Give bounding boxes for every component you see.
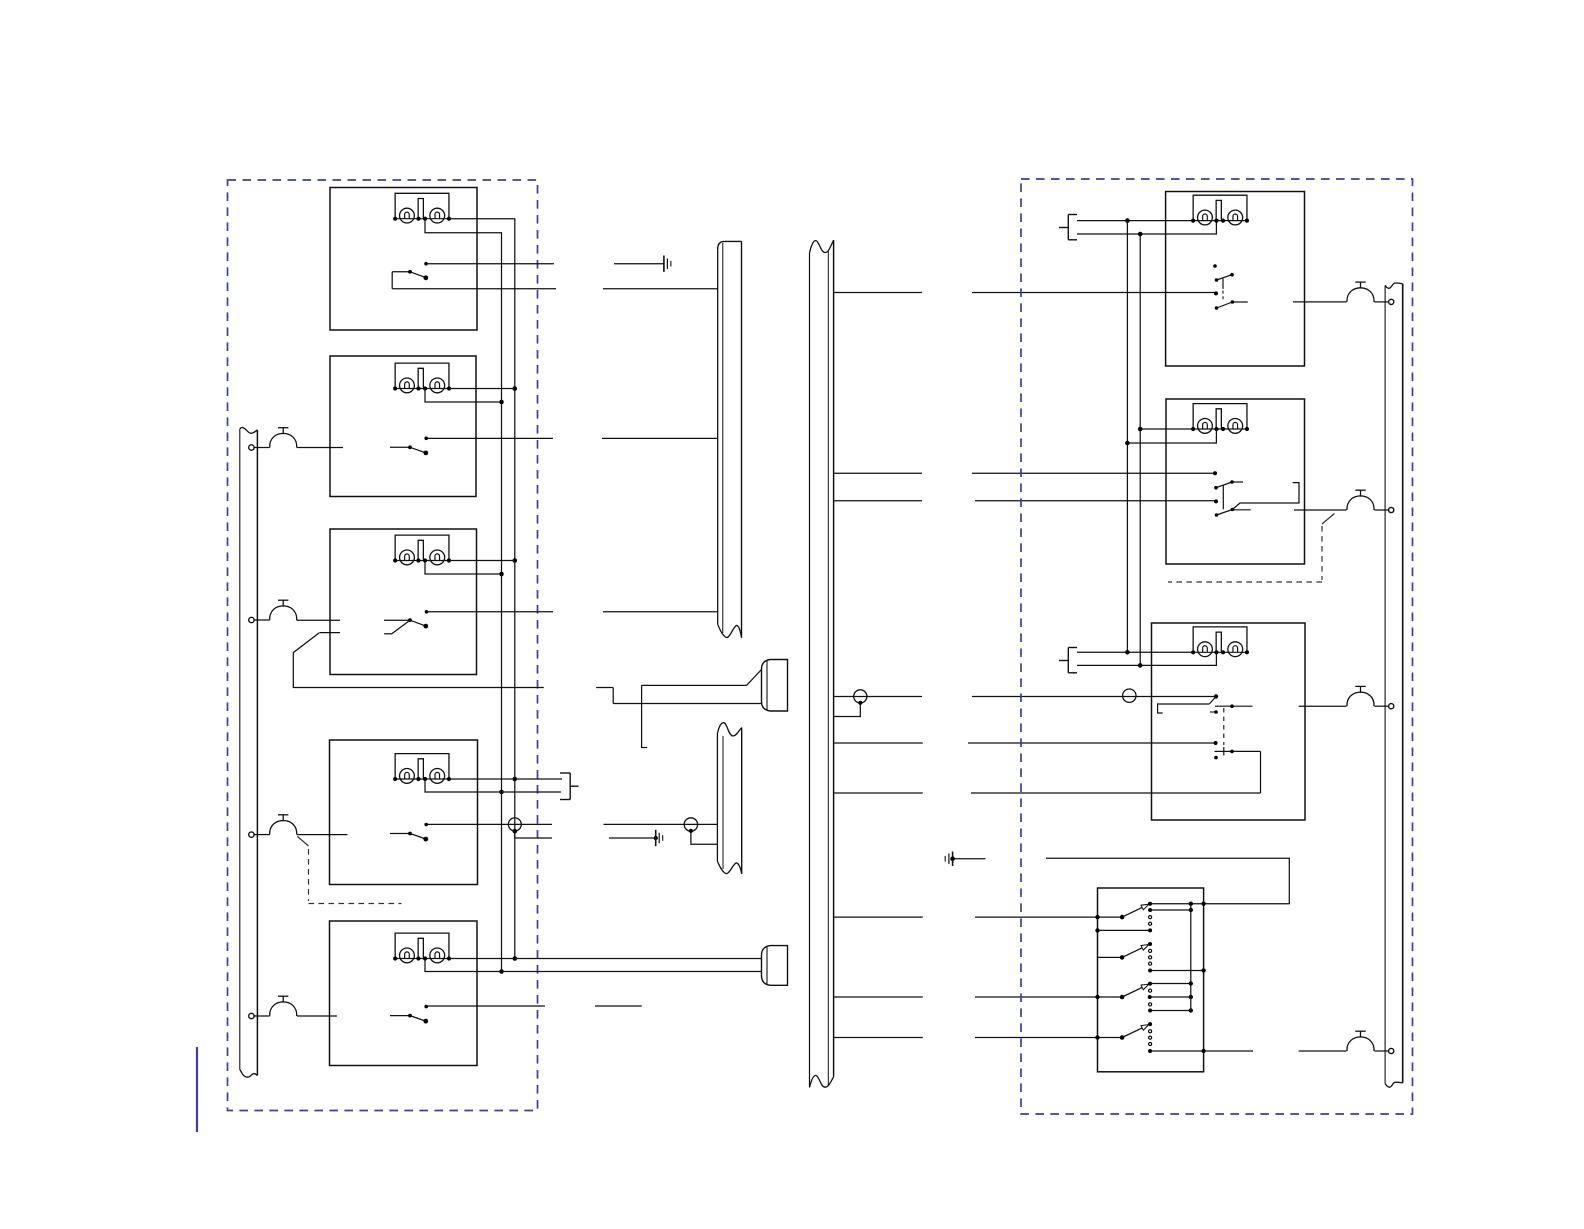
fuse F6: [1347, 490, 1374, 510]
selector pole 1 contacts: [1095, 902, 1206, 933]
wire terminal-to-fuse row 4: [254, 1015, 270, 1017]
wire S4 contact to connector J3: [427, 823, 717, 825]
wire bus to selector pole 1: [833, 916, 1122, 918]
inline connector ring on vertical A: [508, 818, 521, 831]
inline ring near R3: [1123, 689, 1136, 702]
relay box R2: [1166, 399, 1305, 564]
selector pole 3 contacts: [1095, 981, 1193, 1012]
terminal T6: [1389, 507, 1394, 512]
junction below ring: [513, 829, 518, 834]
wire S3 contact to connector J1: [427, 611, 718, 613]
wire ring drop to connector J3: [691, 831, 718, 844]
lamp box B2: [330, 356, 476, 497]
connector bracket BB2: [1059, 648, 1077, 673]
wire bus to relay R2 switch lower: [833, 500, 1215, 502]
selector pole 2 contacts: [1148, 949, 1206, 972]
lamp box B1: [330, 188, 477, 331]
lamp unit L4 (two lamps with bracket): [393, 754, 451, 784]
lamp box B3: [330, 529, 477, 675]
fuse F2: [270, 600, 297, 620]
selector pole 1 arm: [1120, 902, 1152, 920]
wire selector pole1 return loop: [1046, 858, 1289, 903]
wire S2 contact to connector J1: [427, 437, 718, 439]
wire BB2 top feed: [1077, 651, 1193, 653]
connector J3: [717, 723, 741, 874]
selector pole 4 contacts: [1095, 1030, 1206, 1054]
switch S3: [384, 610, 428, 634]
wire fuse F6 to bus: [1375, 509, 1389, 511]
lamp unit L1 (two lamps with bracket): [393, 193, 451, 223]
wire B5 lamps to plug P2: [425, 959, 762, 972]
ground G2: [656, 830, 663, 846]
wire fuse F4 to switch S5: [297, 1015, 337, 1017]
switch SR2: [1213, 471, 1251, 517]
connector plug P1: [762, 660, 788, 712]
wire S1 upper contact to ground G1: [427, 263, 664, 265]
wire box3 switch to cable (down and right): [293, 633, 544, 688]
terminal T7: [1389, 704, 1394, 709]
wire bus to relay R3 pole A with rings: [833, 696, 1215, 698]
selector switch box: [1098, 888, 1204, 1072]
inline connector ring J3 side: [684, 818, 697, 831]
lamp unit RL3 (two lamps with bracket): [1191, 627, 1249, 657]
switch SR3: [1158, 694, 1261, 793]
fuse F7: [1347, 686, 1374, 706]
lamp unit RL2 (two lamps with bracket): [1191, 404, 1249, 434]
wire ground G3 stub: [953, 858, 986, 860]
right supply bus bar: [1385, 283, 1403, 1087]
terminal T4: [249, 1013, 254, 1018]
wire SR2 output to fuse F6: [1294, 509, 1347, 511]
wire fuse F2 to box 3: [297, 619, 341, 621]
feed vertical V1: [1125, 221, 1130, 655]
wire SR2 to jack bracket: [1232, 483, 1299, 510]
left harness enclosure (blue dashed): [228, 180, 538, 1111]
wire BB1 bottom feed: [1077, 221, 1216, 234]
junction ring bottom: [689, 829, 693, 833]
mechanical link dashed D1: [298, 837, 402, 904]
wire fuse F5 to bus: [1375, 301, 1389, 303]
lamp unit L5 (two lamps with bracket): [393, 933, 451, 963]
junction V2 top: [1138, 232, 1143, 237]
fuse F3: [270, 815, 297, 835]
terminal T2: [249, 617, 254, 622]
wire SR3 output to fuse F7: [1299, 705, 1347, 707]
switch S2: [390, 437, 428, 456]
wire B2 lamp taps: [425, 389, 515, 403]
wire S1 lower to connector J1: [392, 288, 718, 290]
wire BB2 bottom feed: [1077, 652, 1216, 665]
wire terminal-to-fuse row 1: [254, 447, 270, 449]
wire bus to relay R1 switch: [833, 292, 1215, 294]
wire B4 lamp taps to bracket: [425, 779, 562, 792]
wire SR1 output to fuse F5: [1293, 301, 1347, 303]
wire V1 to RL2 middle: [1127, 429, 1216, 443]
fuse F8: [1347, 1031, 1374, 1051]
right harness enclosure (blue dashed): [1021, 179, 1413, 1114]
feed vertical V2: [1138, 234, 1143, 668]
selector pole 2 arm: [1098, 942, 1153, 960]
wire stub box3 inner: [319, 632, 340, 634]
mechanical link dashed D2: [1168, 514, 1335, 583]
terminal T5: [1389, 299, 1394, 304]
ground G1: [664, 256, 671, 272]
lamp box B4: [330, 740, 478, 885]
wire selector pole4 output to fuse F8: [1204, 1050, 1347, 1052]
switch S1: [392, 262, 428, 289]
lamp unit L2 (two lamps with bracket): [393, 363, 451, 393]
wire fuse F7 to bus: [1375, 705, 1389, 707]
terminal T8: [1389, 1048, 1394, 1053]
ground G3: [945, 852, 955, 866]
junction V1 top: [1125, 218, 1130, 223]
wire BB1 top feed: [1077, 220, 1193, 222]
connector bracket BK1 (box4 output): [560, 773, 579, 800]
connector bracket BB1: [1059, 215, 1077, 240]
wire bus to relay R2 switch upper: [833, 472, 1214, 474]
lamp unit L3 (two lamps with bracket): [393, 535, 451, 565]
relay box R1: [1166, 192, 1305, 367]
wire bus to relay R3 pole B: [833, 742, 1215, 744]
switch SR1: [1213, 264, 1248, 310]
lamp unit RL1 (two lamps with bracket): [1191, 195, 1249, 225]
wire lamp feed vertical B (x=501.5): [425, 219, 504, 974]
wire terminal-to-fuse row 3: [254, 834, 270, 836]
selector pole 3 arm: [1120, 982, 1152, 1000]
selector internal vertical: [1190, 904, 1192, 1011]
wire bus to selector pole 3: [833, 996, 1122, 998]
wire bus to selector pole 4: [833, 1037, 1122, 1039]
page margin mark (blue solid line): [196, 1047, 198, 1132]
switch S4: [390, 823, 428, 842]
connector plug P2: [762, 946, 788, 986]
ring stub to bus: [833, 703, 860, 717]
wire fuse F1 to switch S2: [297, 447, 343, 449]
wire B3 lamp taps: [425, 561, 515, 575]
center harness bus: [810, 240, 834, 1087]
left supply bus bar: [240, 428, 258, 1078]
selector pole 4 arm: [1120, 1022, 1152, 1040]
fuse F5: [1347, 282, 1374, 302]
wire terminal-to-fuse row 2: [254, 619, 270, 621]
wire bus to relay R3 lower throw: [833, 792, 1260, 794]
fuse F4: [270, 996, 297, 1016]
wire V2 to RL2: [1140, 428, 1193, 430]
connector J1 top corner: [718, 241, 742, 249]
inline ring near bus: [854, 690, 867, 703]
wire ring to ground G2: [515, 831, 658, 840]
wire S5 contact (unterminated): [427, 1005, 642, 1007]
fuse F1: [270, 428, 297, 448]
lamp box B5: [330, 921, 478, 1066]
terminal T1: [249, 445, 254, 450]
relay box R3: [1152, 623, 1306, 820]
wire fuse F8 to bus: [1375, 1050, 1389, 1052]
wire fuse F3 to switch S4: [297, 834, 348, 836]
terminal T3: [249, 832, 254, 837]
junction ring bottom: [858, 701, 862, 705]
switch S5: [390, 1005, 428, 1024]
connector J1: [718, 241, 742, 637]
cable to plug P1: [596, 670, 761, 748]
wire lamp feed vertical A (x=514.8): [449, 219, 517, 961]
